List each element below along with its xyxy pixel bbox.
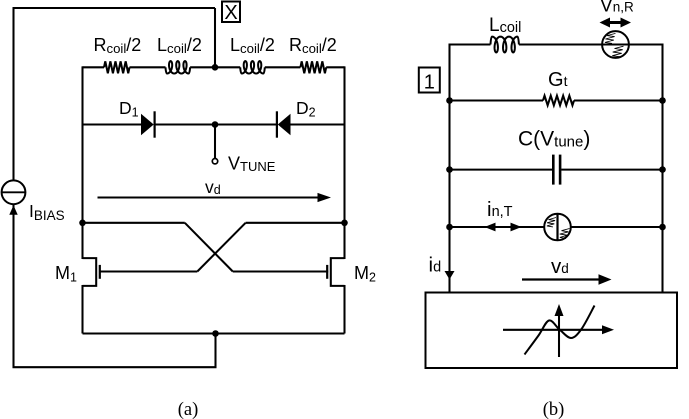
wire: M1 source to bottom rail bbox=[81, 285, 83, 334]
junction: left rail (i_n,T) bbox=[446, 224, 453, 231]
transistor M2 (NMOS) bbox=[331, 258, 345, 286]
wire: top rail segment right bbox=[326, 66, 344, 68]
wire: M1 gate lead bbox=[100, 270, 198, 272]
svg-text:Gt: Gt bbox=[548, 69, 568, 91]
svg-text:IBIAS: IBIAS bbox=[29, 201, 65, 223]
wire: i_n,T branch left segment bbox=[450, 226, 545, 228]
svg-text:M2: M2 bbox=[354, 263, 376, 285]
svg-text:id: id bbox=[429, 254, 442, 277]
wire: G_t branch left segment bbox=[450, 99, 544, 101]
wire: left rail (b) bbox=[448, 44, 450, 293]
wire: M2 source to bottom rail bbox=[343, 285, 345, 334]
wire: I_BIAS top lead bbox=[12, 8, 14, 181]
wire: varactor row right segment bbox=[291, 123, 345, 125]
inductor L_coil bbox=[491, 37, 519, 53]
block: nonlinear transconductor bbox=[426, 293, 678, 369]
inductor L_coil/2 (right) bbox=[240, 61, 265, 73]
arrow: i_n,T bidirectional arrowheads bbox=[485, 223, 496, 232]
resistor R_coil/2 (right) bbox=[300, 61, 326, 73]
wire: C branch left segment bbox=[450, 169, 553, 171]
svg-text:vd: vd bbox=[551, 255, 569, 278]
wire: i_n,T branch right segment bbox=[571, 226, 663, 228]
resistor R_coil/2 (left) bbox=[104, 61, 130, 73]
node X (boxed label) bbox=[222, 2, 240, 23]
wire: cross-coupling diagonal (right node to M1 gate) bbox=[197, 223, 245, 272]
svg-text:(b): (b) bbox=[543, 400, 565, 419]
svg-text:D2: D2 bbox=[296, 98, 316, 120]
arrow v_d (differential voltage, circuit a) bbox=[98, 196, 319, 198]
wire: C branch right segment bbox=[561, 169, 662, 171]
svg-text:M1: M1 bbox=[55, 263, 77, 285]
arrow i_d (drain current into transconductor) bbox=[445, 271, 455, 280]
junction: right rail (G_t) bbox=[659, 97, 666, 104]
junction: node 1 left (G_t) bbox=[446, 97, 453, 104]
wire: right rail (b) bbox=[661, 44, 663, 293]
arrow: V_n,R polarity double arrow bbox=[604, 21, 628, 24]
wire: left rail bbox=[81, 66, 83, 259]
arrow v_d (circuit b) bbox=[522, 278, 600, 280]
svg-text:Rcoil/2: Rcoil/2 bbox=[289, 35, 337, 56]
svg-text:(a): (a) bbox=[178, 400, 199, 419]
capacitor C(V_tune) bbox=[552, 155, 555, 185]
inductor L_coil/2 (left) bbox=[166, 61, 191, 73]
svg-text:1: 1 bbox=[424, 72, 435, 94]
svg-text:in,T: in,T bbox=[487, 198, 513, 221]
wire: top rail between L and R (right) bbox=[265, 66, 301, 68]
wire: M2 gate lead bbox=[233, 270, 328, 272]
svg-text:Vn,R: Vn,R bbox=[600, 0, 634, 17]
svg-text:vd: vd bbox=[205, 177, 221, 197]
junction: right rail (C) bbox=[659, 166, 666, 173]
wire: vertical drop from top wire to tank center bbox=[214, 8, 216, 67]
axis: transconductor x-axis arrow bbox=[503, 329, 602, 331]
wire: top branch middle segment bbox=[519, 43, 602, 45]
wire: V_TUNE stub bbox=[214, 125, 216, 159]
resistor G_t (tank conductance) bbox=[543, 96, 574, 106]
junction: V_TUNE tap bbox=[212, 121, 219, 128]
junction: right rail (i_n,T) bbox=[659, 224, 666, 231]
curve: nonlinear transconductance characteristic bbox=[525, 306, 595, 355]
svg-text:X: X bbox=[224, 2, 237, 24]
junction: right output node bbox=[341, 220, 348, 227]
diode D2 (varactor, cathode left) bbox=[276, 111, 278, 137]
wire: cross-coupling diagonal (left node to M2 gate) bbox=[185, 223, 233, 272]
svg-text:C(Vtune): C(Vtune) bbox=[518, 128, 590, 151]
current source I_BIAS bbox=[2, 180, 26, 204]
wire: top rail center segment bbox=[190, 66, 240, 68]
svg-text:VTUNE: VTUNE bbox=[228, 154, 276, 175]
wire: tail to I_BIAS return bbox=[14, 205, 216, 368]
wire: top branch left segment bbox=[450, 43, 491, 45]
wire: right rail bbox=[343, 66, 345, 259]
terminal: V_TUNE open circle bbox=[212, 159, 217, 164]
noise source V_n,R (circle with noise squiggle) bbox=[602, 31, 629, 58]
junction: left rail (C) bbox=[446, 166, 453, 173]
diode D1 (varactor, anode left) bbox=[141, 114, 154, 136]
transistor M1 (NMOS) bbox=[83, 258, 97, 286]
svg-text:Lcoil: Lcoil bbox=[489, 15, 521, 36]
junction: left output node bbox=[79, 220, 86, 227]
noise source i_n,T (circle with vertical bar and squiggle) bbox=[544, 214, 571, 241]
wire: bottom rail (common source) bbox=[83, 332, 345, 334]
wire: G_t branch right segment bbox=[574, 99, 663, 101]
wire: top branch right segment bbox=[629, 43, 663, 45]
junction: tank center / node X bbox=[212, 64, 219, 71]
wire: right output to cross-coupling bbox=[246, 222, 345, 224]
wire: top rail segment left bbox=[83, 66, 105, 68]
wire: outer top from IBIAS branch to node X bbox=[13, 7, 216, 9]
node 1 (boxed label) bbox=[419, 68, 440, 93]
wire: varactor row middle segment bbox=[155, 123, 277, 125]
axis: transconductor y-axis arrow bbox=[558, 314, 560, 357]
svg-text:Rcoil/2: Rcoil/2 bbox=[94, 35, 142, 56]
svg-text:Lcoil/2: Lcoil/2 bbox=[157, 35, 202, 56]
svg-text:Lcoil/2: Lcoil/2 bbox=[230, 35, 275, 56]
wire: top rail between R and L (left) bbox=[130, 66, 166, 68]
junction: tail node bbox=[212, 330, 219, 337]
wire: left output to cross-coupling bbox=[83, 222, 185, 224]
wire: varactor row left segment bbox=[83, 123, 142, 125]
svg-text:D1: D1 bbox=[119, 98, 139, 120]
